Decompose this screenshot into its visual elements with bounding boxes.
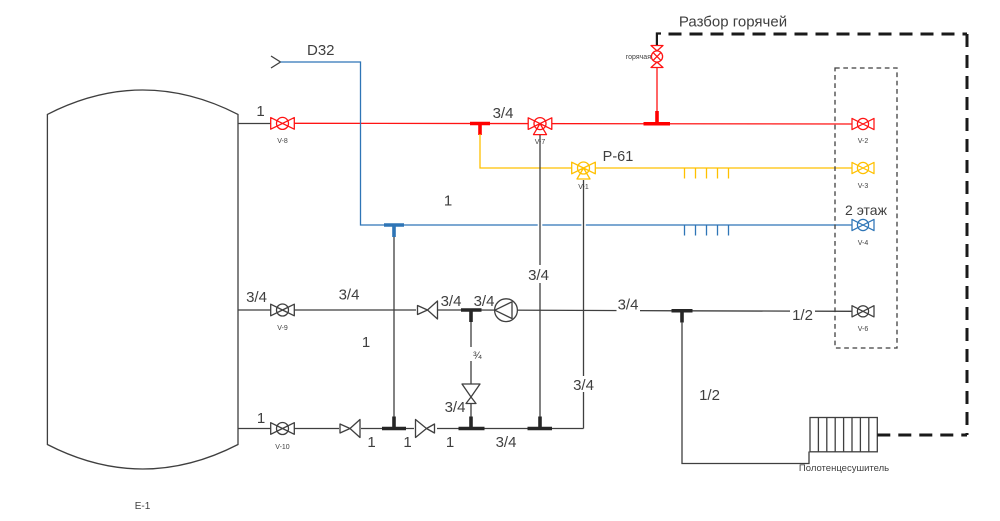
svg-text:2 этаж: 2 этаж <box>845 202 888 218</box>
svg-text:V-2: V-2 <box>858 138 869 145</box>
svg-text:1: 1 <box>444 193 452 210</box>
svg-text:E-1: E-1 <box>135 501 151 512</box>
svg-text:1/2: 1/2 <box>699 387 720 404</box>
svg-text:3/4: 3/4 <box>618 297 639 314</box>
svg-text:3/4: 3/4 <box>339 287 360 304</box>
svg-text:1: 1 <box>256 103 264 120</box>
svg-text:V-10: V-10 <box>275 444 290 451</box>
svg-text:горячая: горячая <box>626 54 651 61</box>
svg-text:V-6: V-6 <box>858 326 869 333</box>
svg-text:V-9: V-9 <box>277 325 288 332</box>
svg-text:Р-61: Р-61 <box>603 149 634 165</box>
svg-text:D32: D32 <box>307 42 335 59</box>
svg-text:V-4: V-4 <box>858 240 869 247</box>
svg-text:3/4: 3/4 <box>445 399 466 416</box>
svg-text:3/4: 3/4 <box>496 434 517 451</box>
svg-text:3/4: 3/4 <box>474 293 495 310</box>
svg-text:V-8: V-8 <box>277 138 288 145</box>
svg-text:1: 1 <box>367 434 375 451</box>
svg-text:Полотенцесушитель: Полотенцесушитель <box>799 463 889 474</box>
svg-text:3/4: 3/4 <box>246 289 267 306</box>
svg-text:Разбор горячей: Разбор горячей <box>679 14 787 31</box>
svg-text:1: 1 <box>257 410 265 427</box>
svg-text:1: 1 <box>446 434 454 451</box>
svg-text:V-3: V-3 <box>858 183 869 190</box>
svg-text:3/4: 3/4 <box>493 105 514 122</box>
svg-text:1/2: 1/2 <box>792 307 813 324</box>
svg-text:3/4: 3/4 <box>441 293 462 310</box>
svg-text:1: 1 <box>362 334 370 351</box>
svg-text:¾: ¾ <box>473 350 482 362</box>
svg-text:1: 1 <box>403 434 411 451</box>
svg-text:3/4: 3/4 <box>573 377 594 394</box>
svg-text:3/4: 3/4 <box>528 267 549 284</box>
